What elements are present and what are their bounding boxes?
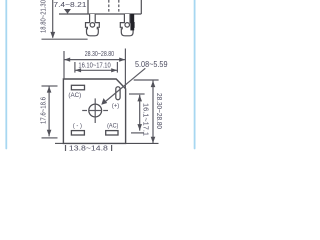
slot terminal AC bottom-right	[106, 131, 118, 135]
svg-text:(AC): (AC)	[107, 123, 118, 130]
svg-text:28.30~28.80: 28.30~28.80	[155, 93, 164, 129]
dimension 16.10~17.10 ticks	[75, 62, 118, 73]
svg-text:18.80~21.30: 18.80~21.30	[39, 0, 48, 33]
terminal lug right (side view)	[120, 14, 134, 36]
svg-text:28.30~28.80: 28.30~28.80	[85, 49, 114, 58]
svg-text:16.10~17.10: 16.10~17.10	[78, 60, 110, 69]
leader line 5.08~5.59	[104, 68, 146, 103]
dimension 7.4~8.21 arrow	[64, 9, 71, 14]
svg-text:(+): (+)	[112, 102, 119, 109]
svg-text:( - ): ( - )	[73, 123, 82, 130]
svg-text:(AC): (AC)	[68, 92, 81, 99]
bottom edge extension stubs	[55, 142, 63, 144]
svg-text:5.08~5.59: 5.08~5.59	[135, 60, 168, 69]
mounting hole circle	[89, 104, 102, 117]
blue panel border left	[5, 0, 7, 149]
slot terminal minus bottom-left	[71, 131, 84, 135]
dimension 28.30~28.80 top line	[64, 59, 125, 61]
dimension 16.10~17.10 line	[75, 69, 118, 71]
svg-text:7.4~8.21: 7.4~8.21	[53, 0, 86, 9]
svg-text:17.6~18.6: 17.6~18.6	[39, 97, 48, 124]
dimension 17.6~18.6 left	[42, 86, 58, 138]
terminal lug right rear (black sliver)	[130, 14, 134, 30]
package body side view	[59, 0, 141, 14]
dimension 18.80~21.30 line	[42, 0, 88, 39]
hidden hole dashed line right	[118, 0, 120, 13]
slot terminal AC top-left	[71, 85, 84, 90]
hole crosshair	[82, 98, 108, 123]
dimension 28.30~28.80 right outer	[134, 80, 159, 143]
blue panel border right	[194, 0, 196, 149]
slot terminal plus right	[116, 87, 120, 100]
hidden hole dashed line left	[108, 0, 110, 13]
terminal lug left (side view)	[86, 14, 100, 36]
svg-text:13.8~14.8: 13.8~14.8	[69, 143, 108, 151]
dimension 16.1~17.1 right inner	[129, 94, 145, 133]
dimension 28.30~28.80 top extension lines	[64, 49, 125, 89]
dimension 13.8~14.8 ticks	[66, 145, 112, 151]
bottom view square body	[63, 79, 125, 143]
svg-text:16.1~17.1: 16.1~17.1	[142, 103, 151, 136]
